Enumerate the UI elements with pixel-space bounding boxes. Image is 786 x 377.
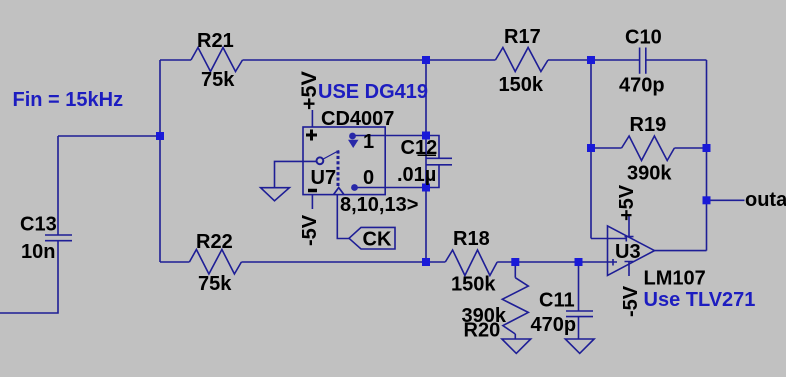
wire node 160 vertical bbox=[159, 60, 161, 262]
resistor R18 bbox=[445, 250, 497, 276]
svg-text:150k: 150k bbox=[499, 74, 544, 96]
svg-text:390k: 390k bbox=[627, 163, 672, 185]
svg-text:U7: U7 bbox=[311, 167, 337, 189]
svg-text:.01µ: .01µ bbox=[397, 164, 436, 186]
junction node at 426,262 bbox=[422, 258, 430, 266]
wire C12 bottom stub bbox=[426, 165, 439, 187]
svg-text:150k: 150k bbox=[451, 274, 496, 296]
svg-text:-5V: -5V bbox=[299, 214, 321, 246]
svg-text:Use TLV271: Use TLV271 bbox=[644, 289, 756, 311]
wire R18 to op-amp non-inverting input bbox=[497, 261, 617, 263]
wire R21 to R17 bbox=[243, 59, 496, 61]
switch U7 contact 0 dot bbox=[351, 184, 358, 191]
svg-text:10n: 10n bbox=[21, 241, 55, 263]
svg-text:CK: CK bbox=[363, 229, 392, 251]
svg-text:USE DG419: USE DG419 bbox=[318, 81, 428, 103]
svg-text:470p: 470p bbox=[619, 75, 665, 97]
wire C13 bottom lead bbox=[0, 241, 58, 313]
capacitor C11 plates bbox=[566, 311, 593, 317]
wire R20 bottom lead bbox=[514, 334, 516, 339]
wire U7 common input bbox=[275, 161, 317, 187]
svg-text:8,10,13>: 8,10,13> bbox=[340, 194, 418, 216]
junction node at 426,187.5 bbox=[422, 184, 430, 192]
svg-text:CD4007: CD4007 bbox=[321, 108, 394, 130]
resistor R20 bbox=[502, 278, 528, 334]
wire node 591 vertical bbox=[590, 60, 592, 239]
non-inverting plus tick bbox=[612, 259, 614, 266]
capacitor C12 plates bbox=[427, 158, 453, 165]
wire R17 to C10 bbox=[548, 59, 639, 61]
svg-text:R20: R20 bbox=[464, 320, 501, 342]
svg-text:+5V: +5V bbox=[616, 184, 638, 221]
wire U7 contact 1 to node bbox=[352, 135, 426, 137]
CK flag bbox=[349, 227, 395, 249]
svg-text:R19: R19 bbox=[630, 114, 667, 136]
capacitor C13 plates bbox=[45, 235, 72, 241]
wire right rail vertical bbox=[706, 60, 708, 251]
pin minus mark U7 bbox=[308, 189, 317, 193]
ground at U7 common bbox=[261, 188, 290, 201]
svg-text:Fin = 15kHz: Fin = 15kHz bbox=[13, 89, 124, 111]
svg-text:U3: U3 bbox=[615, 241, 641, 263]
junction node at 591,60 bbox=[587, 56, 595, 64]
wire R20 top lead bbox=[514, 262, 516, 278]
wire op-amp output bbox=[655, 250, 707, 252]
junction node at 706.5,148 bbox=[703, 144, 711, 152]
junction node at 706.5,200.3 bbox=[703, 196, 711, 204]
resistor R19 bbox=[622, 136, 675, 161]
wire C11 top lead bbox=[578, 262, 580, 311]
wire U3 V+ stub bbox=[625, 215, 634, 238]
wire CK clock bbox=[337, 195, 349, 239]
svg-text:75k: 75k bbox=[201, 69, 235, 91]
svg-text:C13: C13 bbox=[20, 214, 57, 236]
switch U7 contact 1 dot bbox=[349, 133, 356, 140]
svg-text:C11: C11 bbox=[539, 290, 575, 312]
underline C12 bbox=[418, 154, 437, 156]
wire C12 top stub bbox=[426, 136, 439, 158]
svg-text:R18: R18 bbox=[453, 228, 490, 250]
op-amp U3 triangle bbox=[608, 226, 655, 276]
svg-text:C10: C10 bbox=[625, 27, 662, 49]
svg-text:0: 0 bbox=[363, 167, 374, 189]
ground below C11 bbox=[565, 339, 594, 353]
wire U3 V- stub bbox=[625, 261, 634, 276]
resistor R17 bbox=[495, 48, 548, 72]
svg-text:outa: outa bbox=[745, 189, 786, 211]
switch U7 contact 1 arrow bbox=[348, 140, 359, 148]
wire R22 to R18 bbox=[241, 261, 445, 263]
wire U7 +5V stub bbox=[311, 110, 313, 127]
ground below R20 bbox=[502, 339, 531, 353]
wire C10 to right rail bbox=[646, 59, 707, 61]
junction node at 591,148 bbox=[587, 144, 595, 152]
wire horizontal y136 bbox=[58, 135, 160, 137]
wire R19 left lead bbox=[591, 147, 622, 149]
wire to outa bbox=[707, 199, 745, 201]
junction node at 426,60 bbox=[422, 56, 430, 64]
wire U7 -5V stub bbox=[311, 195, 313, 209]
resistor R22 bbox=[189, 250, 241, 275]
switch U7 box bbox=[303, 127, 385, 195]
pin plus mark U7 bbox=[306, 130, 317, 141]
junction node at 578.5,262 bbox=[575, 258, 583, 266]
wire U7 contact 0 to node bbox=[355, 187, 427, 189]
svg-text:R17: R17 bbox=[504, 26, 541, 48]
wire top from input corner to R21 bbox=[160, 59, 191, 61]
svg-text:1: 1 bbox=[363, 131, 374, 153]
resistor R21 bbox=[191, 48, 243, 72]
svg-text:-5V: -5V bbox=[620, 285, 642, 317]
junction node at 515,262 bbox=[511, 258, 519, 266]
capacitor C10 plates bbox=[640, 48, 646, 74]
svg-text:75k: 75k bbox=[198, 273, 232, 295]
wire node 426 vertical bbox=[425, 60, 427, 262]
junction node at 426,135.5 bbox=[422, 132, 430, 140]
switch U7 pole circle bbox=[317, 157, 324, 164]
svg-text:R22: R22 bbox=[196, 231, 233, 253]
junction node at 160,136 bbox=[156, 132, 164, 140]
switch U7 control dashed line bbox=[337, 151, 340, 188]
switch U7 clock triangle bbox=[334, 188, 345, 195]
svg-text:LM107: LM107 bbox=[644, 268, 706, 290]
svg-text:R21: R21 bbox=[197, 30, 234, 52]
wire R19 right lead bbox=[674, 147, 706, 149]
wire inverting input U3 bbox=[591, 238, 626, 240]
wire bottom left to R22 bbox=[160, 261, 189, 263]
wire C13 top lead bbox=[57, 136, 59, 235]
svg-text:470p: 470p bbox=[531, 314, 577, 336]
wire C11 bottom lead bbox=[578, 317, 580, 339]
svg-text:+5V: +5V bbox=[297, 70, 321, 110]
switch U7 lever bbox=[323, 151, 339, 160]
